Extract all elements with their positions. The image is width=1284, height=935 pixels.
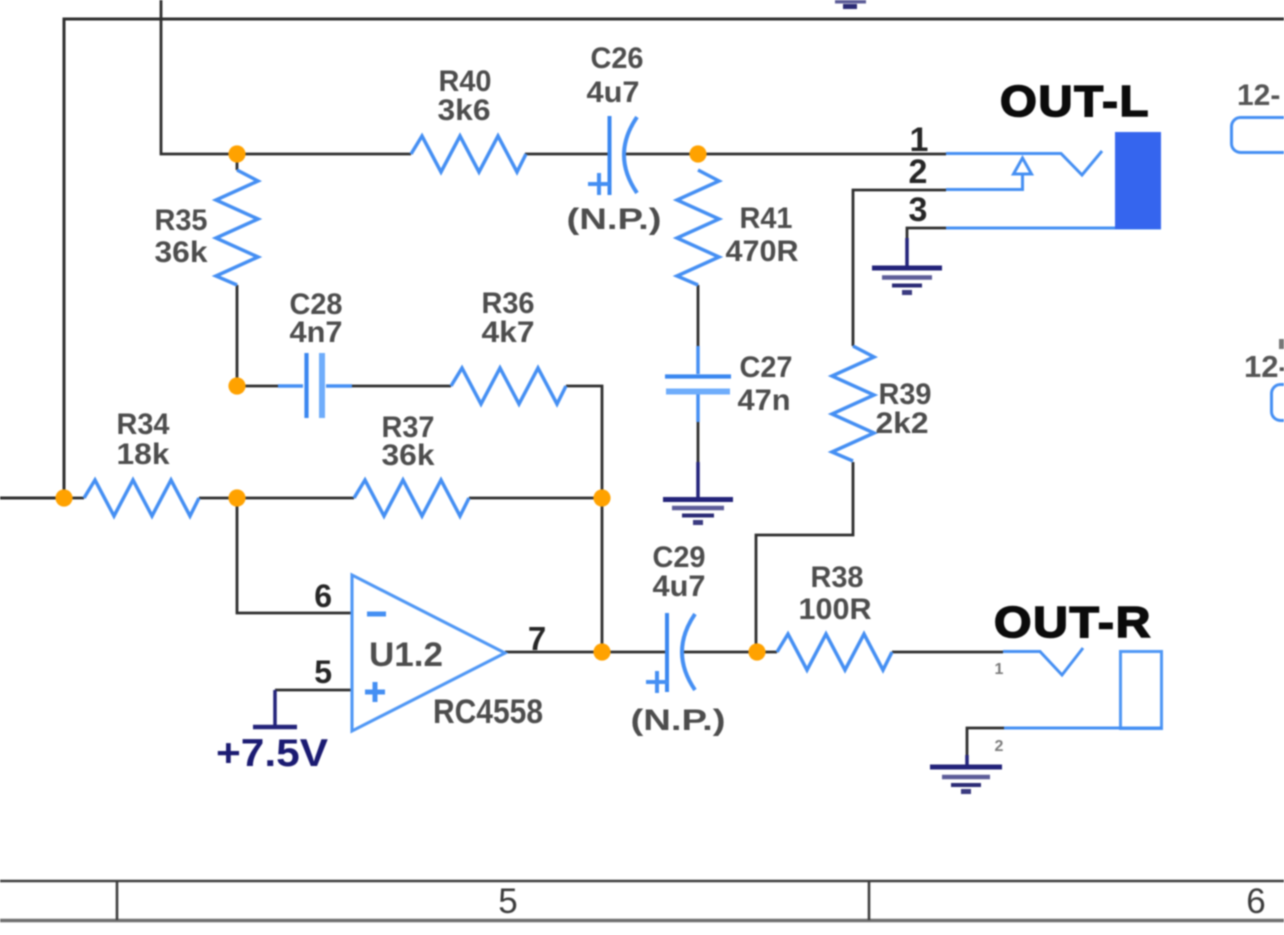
off-page connector 12- (upper right) [1232,79,1284,153]
capacitor C27 [665,346,793,422]
wire OUT-L pin2 to R39 to output junction [756,190,946,652]
svg-text:OUT-L: OUT-L [1000,77,1150,126]
svg-text:2: 2 [995,738,1004,755]
wire R35 leads [236,152,239,386]
svg-text:U1.2: U1.2 [369,636,443,674]
svg-text:470R: 470R [726,235,799,268]
wire R34/R37 row [64,497,602,500]
wire C28/R36 row [237,386,602,498]
svg-text:2k2: 2k2 [876,407,929,440]
svg-text:3k6: 3k6 [438,94,491,127]
svg-text:R35: R35 [155,204,208,237]
connector OUT-L jack body [1115,132,1161,229]
svg-text:12-: 12- [1244,349,1284,384]
connector OUT-L jack ring wire with arrow [946,158,1032,190]
svg-text:R38: R38 [811,561,864,594]
ground at OUT-L pin 3 [872,238,942,293]
resistor R37 [354,411,469,516]
svg-text:R41: R41 [740,202,793,235]
svg-text:6: 6 [314,578,332,614]
svg-text:100R: 100R [799,593,872,626]
svg-text:4n7: 4n7 [290,316,343,349]
svg-text:7: 7 [528,620,546,657]
capacitor C26 (N.P.) [567,42,662,236]
svg-text:18k: 18k [117,438,170,471]
svg-text:47n: 47n [738,384,791,417]
svg-text:2: 2 [909,153,928,191]
svg-text:R34: R34 [117,408,170,441]
wire non-inverting input (pin 5) [275,689,352,692]
svg-text:C26: C26 [591,42,644,75]
wire R41 to C27 [697,285,700,462]
connector OUT-L jack sleeve wire [946,227,1161,230]
capacitor C28 [278,288,352,418]
connector OUT-R sleeve wire [1004,727,1162,730]
svg-text:5: 5 [498,882,517,921]
connector OUT-L jack tip wire [946,151,1102,175]
partial ground symbol at top edge [835,2,866,7]
wire OUT-R pin2 to ground [967,728,1004,755]
connector OUT-R jack body [1121,652,1162,729]
ground at OUT-R pin 2 [930,755,1002,792]
sheet border bottom [0,881,1284,921]
svg-text:5: 5 [314,654,332,690]
svg-text:(N.P.): (N.P.) [567,203,662,236]
resistor R36 [451,287,566,404]
wire inverting input (pin 6) [237,498,352,613]
svg-text:12-: 12- [1237,79,1280,112]
resistor R39 [832,346,932,461]
resistor R40 [411,65,526,172]
connector OUT-R jack tip wire [1003,648,1083,675]
resistor R35 [155,170,259,285]
svg-text:+7.5V: +7.5V [216,732,328,775]
svg-text:(N.P.): (N.P.) [631,704,726,737]
svg-text:OUT-R: OUT-R [994,598,1152,647]
svg-text:36k: 36k [155,236,208,269]
wire top net (left bus) [0,19,1284,498]
svg-text:36k: 36k [382,439,435,472]
resistor R34 [84,408,199,516]
wire OUT-L pin3 stub [907,228,946,240]
op-amp U1.2 [352,575,543,731]
svg-text:RC4558: RC4558 [433,693,543,731]
svg-text:4u7: 4u7 [587,76,640,109]
resistor R38 [777,561,892,670]
off-page connector 12- (lower right) [1244,339,1284,421]
capacitor C29 (N.P.) [631,541,726,737]
ground below C27 [663,462,733,523]
power +7.5V [216,690,328,775]
wire output row [505,498,1003,652]
svg-text:C27: C27 [740,351,793,384]
resistor R41 [677,170,799,285]
svg-text:3: 3 [909,191,928,229]
svg-text:4k7: 4k7 [482,316,535,349]
svg-text:4u7: 4u7 [653,570,706,603]
svg-text:1: 1 [995,661,1004,678]
svg-text:6: 6 [1246,882,1265,921]
wire feedback net to output row [161,0,946,154]
